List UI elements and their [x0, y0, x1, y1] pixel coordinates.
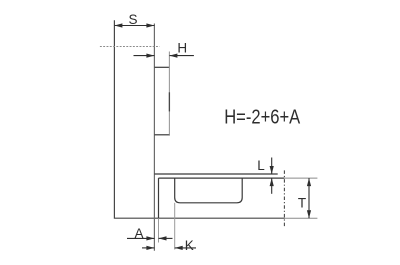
- svg-text:A: A: [134, 226, 143, 241]
- svg-text:H=-2+6+A: H=-2+6+A: [224, 105, 300, 128]
- svg-text:L: L: [257, 158, 265, 173]
- svg-text:S: S: [128, 12, 137, 27]
- svg-text:H: H: [177, 41, 187, 56]
- svg-text:K: K: [185, 238, 194, 253]
- svg-text:T: T: [298, 195, 306, 210]
